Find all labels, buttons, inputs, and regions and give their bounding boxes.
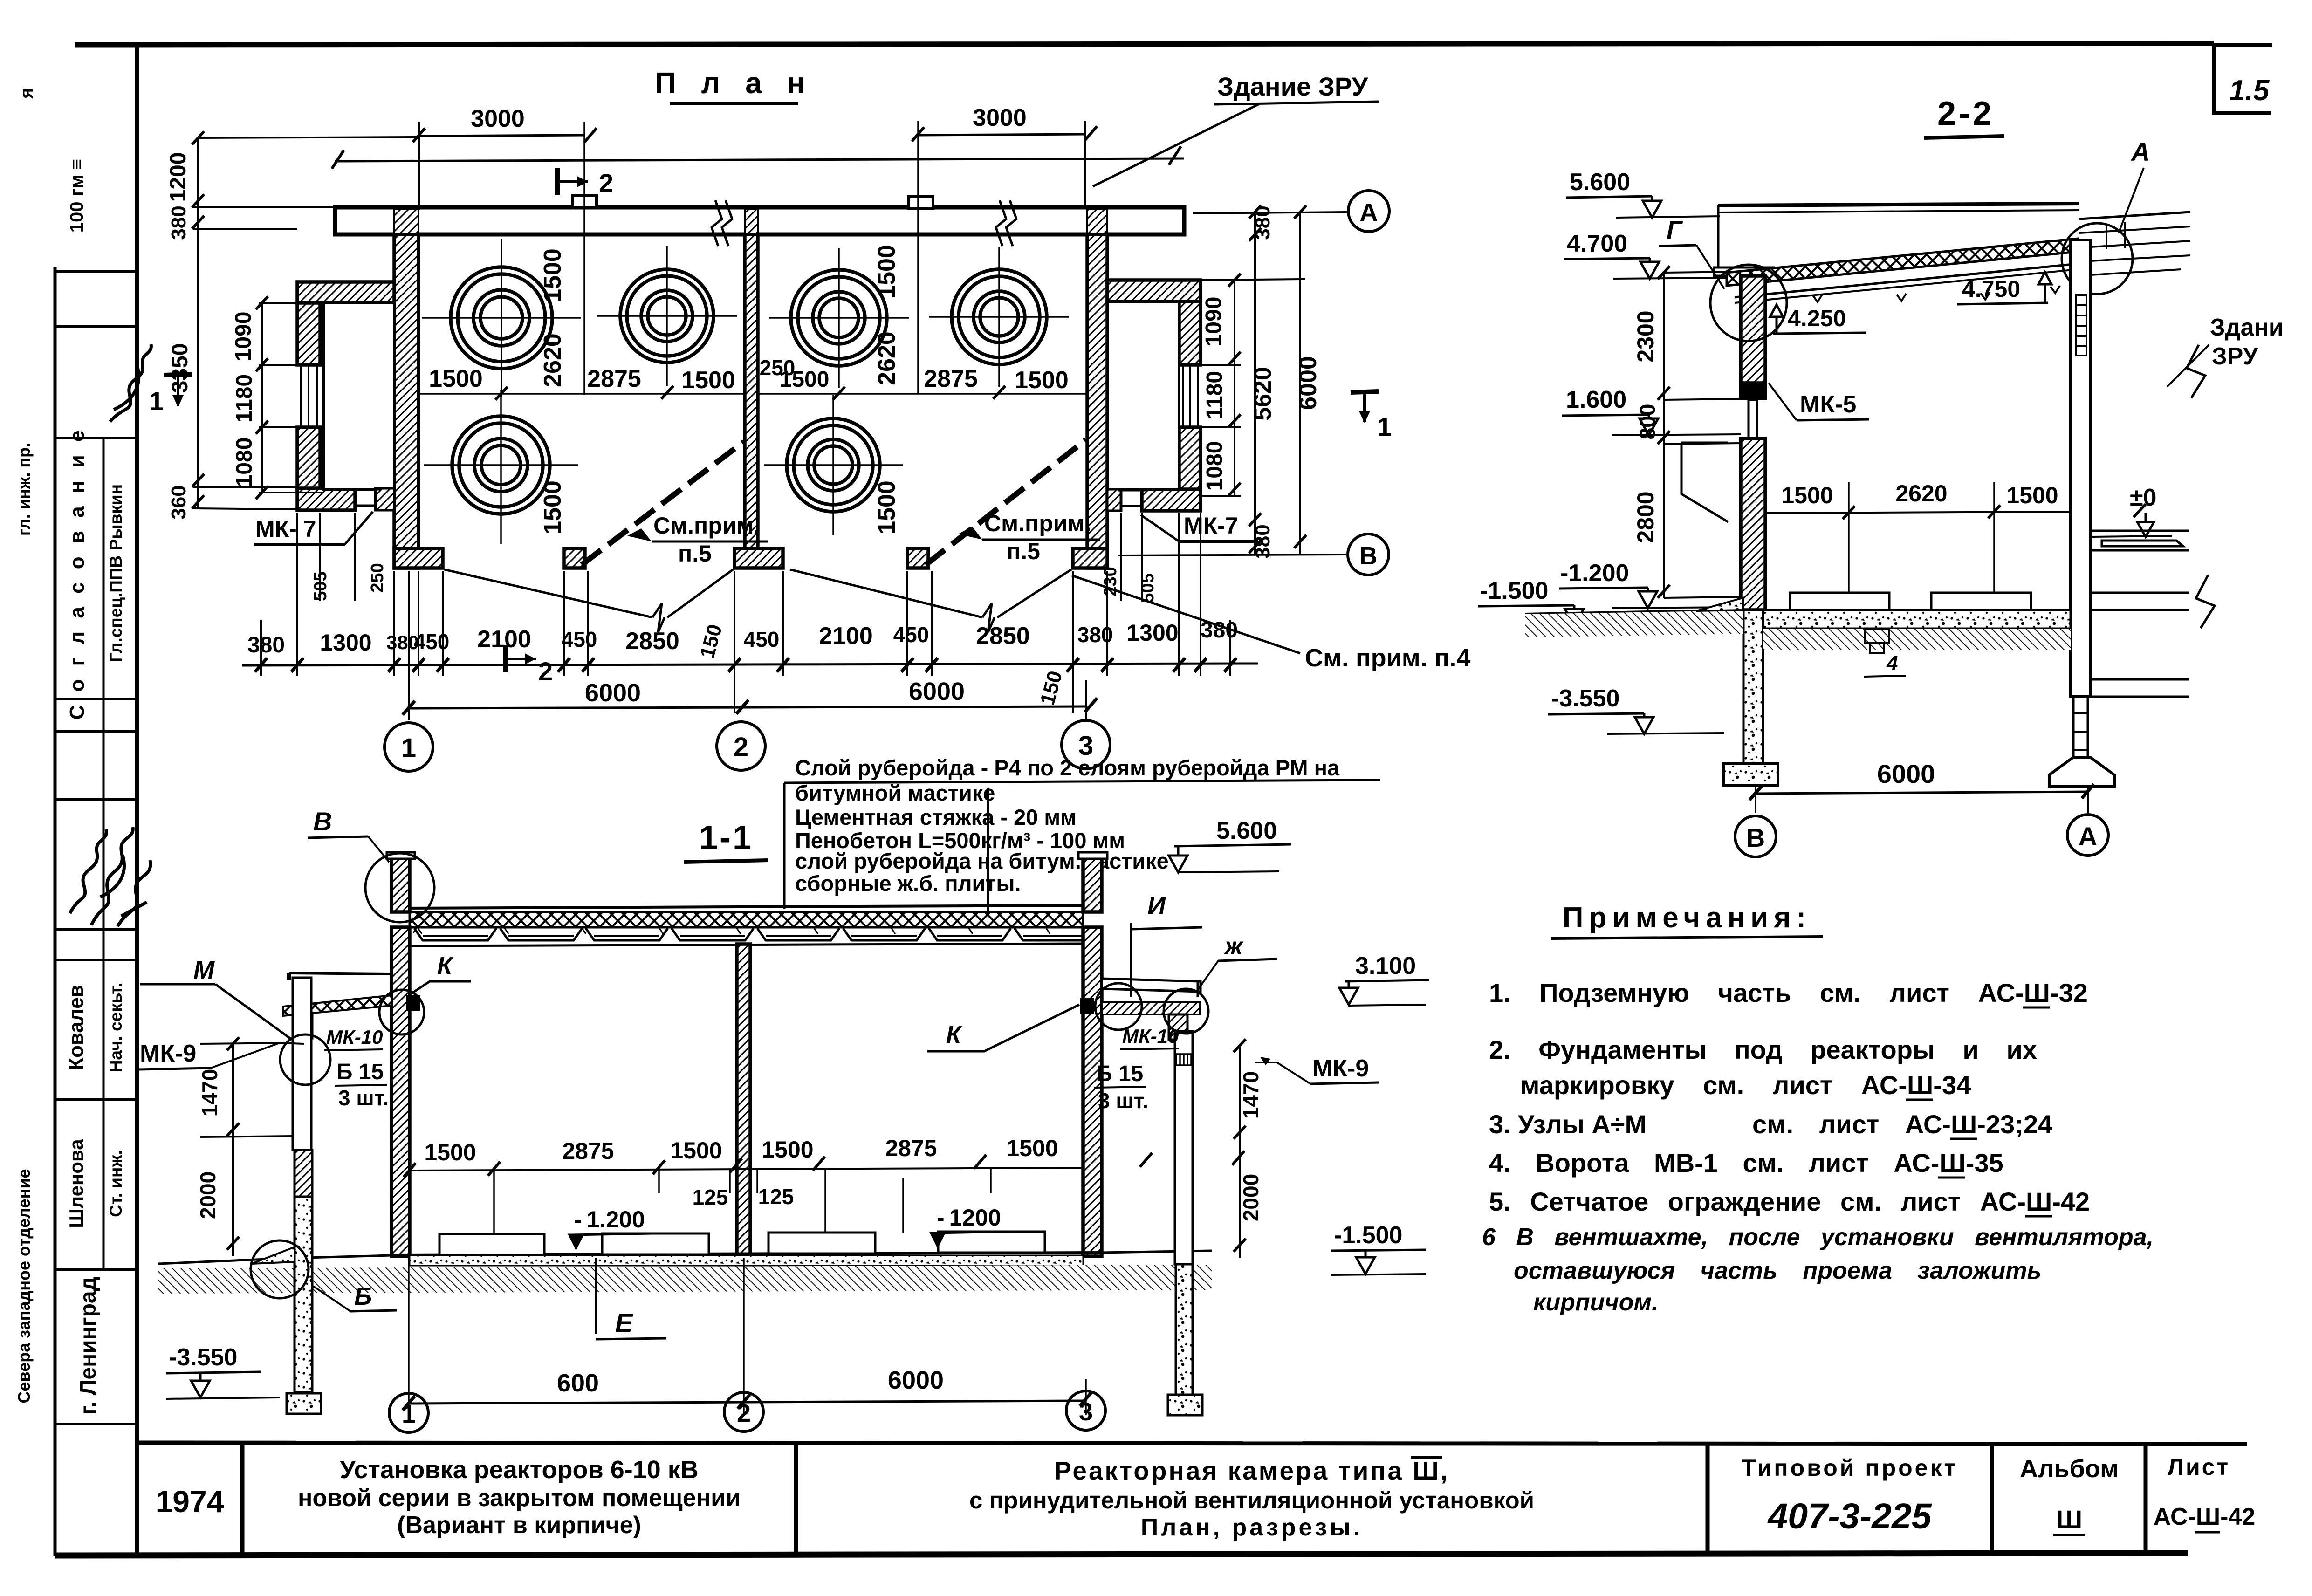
svg-text:407-3-225: 407-3-225 [1767,1496,1932,1536]
svg-text:450: 450 [893,623,929,647]
svg-text:В: В [1359,542,1378,570]
svg-text:1500: 1500 [1006,1135,1058,1161]
svg-text:800: 800 [1635,404,1660,440]
svg-text:1080: 1080 [1202,441,1227,491]
svg-text:Типовой проект: Типовой проект [1742,1455,1958,1481]
svg-text:(Вариант в кирпиче): (Вариант в кирпиче) [397,1512,641,1539]
spec leader to roof [987,788,989,925]
svg-text:М: М [193,956,215,984]
ground wedge left [252,1247,295,1264]
right outer column [1175,1031,1193,1264]
2-2 right roof lines (detail A) [2079,212,2190,275]
right shaft interior [1107,301,1179,489]
1-1 right parapet [1083,858,1102,912]
2-2 flat roof second line [1718,210,2079,212]
svg-text:1500: 1500 [429,365,483,392]
reactor chamber2 top-left [769,248,909,388]
svg-text:3. Узлы А÷М: 3. Узлы А÷М [1489,1110,1647,1139]
svg-text:6 В вентшахте, после установки: 6 В вентшахте, после установки вентилято… [1482,1224,2154,1251]
svg-text:2850: 2850 [625,628,679,655]
1-1 floor concrete band [410,1255,1083,1266]
svg-text:2000: 2000 [1239,1174,1263,1221]
2-2 ground line left [1525,610,1743,614]
2-2 right wall [2071,240,2091,697]
svg-text:6000: 6000 [909,678,965,706]
right canopy pier [1169,1014,1187,1040]
frame top border [75,43,2214,45]
svg-text:маркировку см. лист АС-Ш-34: маркировку см. лист АС-Ш-34 [1520,1070,1971,1100]
left vertical dim chain outer [193,137,419,509]
right column footing [1168,1395,1202,1415]
svg-text:-1.500: -1.500 [1480,577,1548,604]
2-2 parapet cap [1714,267,1774,276]
svg-text:2000: 2000 [196,1171,220,1219]
top overall dimension line [335,158,1184,161]
svg-text:п.5: п.5 [1007,538,1040,564]
dim 3000 right [918,134,1085,135]
svg-text:-3.550: -3.550 [169,1344,237,1371]
right outer column underground [1176,1264,1193,1395]
chamber left wall bottom corner [394,548,443,568]
right porch dim chain [1239,1046,1241,1258]
svg-text:Цементная стяжка - 20 мм: Цементная стяжка - 20 мм [795,805,1077,829]
svg-text:См.прим.: См.прим. [984,510,1091,536]
svg-text:Ст. инж.: Ст. инж. [106,1150,125,1217]
svg-text:3000: 3000 [471,105,525,132]
svg-text:АС-Ш-42: АС-Ш-42 [2154,1503,2256,1530]
svg-text:5. Сетчатое ограждение см. лис: 5. Сетчатое ограждение см. лист АС-Ш-42 [1489,1187,2090,1216]
svg-text:4.700: 4.700 [1567,230,1627,257]
svg-text:1500: 1500 [873,245,900,299]
svg-text:См. прим. п.4: См. прим. п.4 [1305,644,1470,672]
1-1 roof slab band [410,912,1083,927]
plan axis circles 1 2 3 [384,720,1110,771]
wall hatch where chamber wall meets band [394,209,418,234]
svg-text:с принудительной вентиляционно: с принудительной вентиляционной установк… [969,1487,1534,1514]
svg-text:Е: Е [615,1308,633,1337]
gate swing chamber1 [444,569,733,632]
svg-text:1-1: 1-1 [699,819,753,856]
small pier chamber1 [564,548,585,568]
svg-text:5.600: 5.600 [1570,169,1630,196]
svg-text:МК-10: МК-10 [326,1026,383,1048]
svg-text:1300: 1300 [320,630,371,656]
svg-text:1470: 1470 [1239,1071,1263,1119]
svg-text:МК-9: МК-9 [1312,1055,1369,1082]
right shaft MK-7 insert [1118,489,1146,512]
svg-text:100 гм ≡: 100 гм ≡ [67,159,87,233]
2-2 bottom dim 6000 [1756,792,2088,794]
2-2 window bracket [1681,443,1728,522]
svg-text:380: 380 [1251,524,1274,558]
2-2 floor slab [1763,610,2071,629]
svg-text:2620: 2620 [1895,480,1947,507]
svg-text:1500: 1500 [1781,482,1833,508]
svg-text:1500: 1500 [424,1139,476,1165]
plan right axis A line [1193,212,1348,213]
svg-text:380: 380 [1251,205,1274,240]
svg-text:-1.500: -1.500 [1334,1222,1402,1249]
svg-text:5.600: 5.600 [1216,817,1277,844]
svg-text:К: К [946,1021,962,1048]
svg-text:600: 600 [557,1369,599,1397]
svg-text:слой руберойда на битум.мастик: слой руберойда на битум.мастике [795,849,1169,873]
sidebar outer line [54,267,57,1556]
svg-text:А: А [2130,137,2150,166]
right detail circles [1095,983,1142,1030]
frame bottom border [55,1553,2188,1555]
right wall [1087,234,1107,568]
axis dim 6000 line [409,706,1086,708]
svg-text:-3.550: -3.550 [1551,685,1619,712]
1-1 floor line [391,1253,1102,1255]
svg-text:См.прим.: См.прим. [653,513,760,539]
left vertical dim chain shaft [259,303,323,493]
1-1 ceiling panels [410,928,1094,946]
svg-text:1: 1 [149,386,164,416]
1-1 bottom axis dim [409,1401,1086,1404]
svg-text:1500: 1500 [539,480,566,534]
svg-text:3.100: 3.100 [1355,952,1416,980]
right vent shaft top band [1107,280,1201,301]
2-2 interior dim 1500 2620 1500 [1765,512,2071,513]
svg-text:В: В [313,807,332,836]
svg-text:1. Подземную часть см. лист АС: 1. Подземную часть см. лист АС-Ш-32 [1489,978,2088,1007]
left shaft MK-7 insert [352,489,380,512]
interior horizontal guide line row1/row2 [418,393,745,395]
svg-text:С о г л а с о в а н и е: С о г л а с о в а н и е [66,427,89,720]
page number box top right [2214,44,2272,113]
right vertical dim chain 6000 [1299,212,1301,555]
1-1 floor pedestals [439,1234,544,1255]
svg-text:1470: 1470 [198,1069,222,1117]
svg-text:Б 15: Б 15 [336,1060,384,1084]
2-2 detail circle Г [1710,265,1787,341]
2-2 MK-5 black band [1739,383,1767,400]
svg-text:125: 125 [693,1185,728,1209]
right vent shaft bottom band left part [1107,489,1121,511]
left outer column lower hatched [295,1150,312,1197]
svg-text:3 шт.: 3 шт. [1098,1089,1148,1113]
right canopy slab [1102,979,1201,992]
2-2 axis circles B A [1735,816,1776,857]
left detail circle at wall [379,990,424,1034]
svg-text:МК-5: МК-5 [1800,391,1856,418]
svg-text:-1.200: -1.200 [1560,560,1629,587]
svg-text:К: К [437,952,453,980]
svg-text:5620: 5620 [1249,367,1276,421]
dim 3000 left [419,135,584,136]
1-1 E label [595,1258,597,1334]
2-2 vertical dim chain [1663,273,1665,598]
plan right axis B line [1118,555,1347,555]
svg-text:1080: 1080 [232,438,257,487]
svg-text:Здани: Здани [2210,314,2284,341]
svg-text:- 1200: - 1200 [937,1205,1001,1231]
left vent shaft bottom band right part [375,488,394,510]
2-2 flat roof top line [1718,204,2079,205]
2-2 floor pedestals [1790,593,1889,610]
svg-text:450: 450 [562,627,597,651]
svg-text:1090: 1090 [1201,297,1226,347]
sidebar divider [55,270,137,273]
2-2 roof slab lower lines [1735,264,2078,297]
left vent shaft left wall lower [297,427,320,493]
svg-text:МК-10: МК-10 [1122,1025,1179,1047]
svg-text:Севера западное отделение: Севера западное отделение [14,1169,34,1404]
bottom dimension line [242,664,1258,665]
underline of VI [1411,1456,1442,1459]
break mark on wall band 2 [996,200,1016,246]
svg-text:2: 2 [599,168,613,198]
svg-text:4.750: 4.750 [1962,276,2020,302]
svg-text:В: В [1746,823,1765,852]
2-2 left column underground [1743,610,1763,764]
right vertical dim chain shaft [1201,279,1305,496]
svg-text:п.5: п.5 [678,541,712,567]
svg-text:380: 380 [1077,623,1113,647]
left porch detail circle bottom [251,1240,309,1298]
svg-text:2: 2 [538,657,553,686]
middle wall [745,234,758,548]
svg-text:2-2: 2-2 [1937,95,1994,132]
svg-text:1180: 1180 [232,374,257,423]
2-2 break marks right [2187,345,2215,628]
svg-text:1: 1 [401,733,416,763]
left canopy pier [295,1015,312,1038]
reactor chamber2 bottom-left [764,395,903,535]
svg-text:2875: 2875 [562,1138,614,1164]
svg-text:Ш: Ш [2056,1505,2082,1534]
svg-text:1500: 1500 [873,480,900,534]
svg-text:А: А [1360,199,1378,226]
2-2 detail circle A [2062,223,2133,294]
2-2 panel joint notches [1813,286,2060,302]
svg-text:2: 2 [737,1399,751,1427]
Ш underlines in notes [1906,1007,2052,1216]
svg-text:гл. инж. пр.: гл. инж. пр. [14,443,34,536]
left porch dim chain [232,1044,234,1256]
svg-text:1974: 1974 [156,1484,224,1519]
left canopy slab sloped [283,995,391,1016]
2-2 right column underground [2073,697,2088,757]
svg-text:2. Фундаменты под реакторы и и: 2. Фундаменты под реакторы и их [1489,1035,2037,1064]
reactor chamber1 bottom-left [424,390,578,544]
svg-text:3350: 3350 [168,343,192,393]
2-2 parapet face [1717,205,1720,270]
left vent shaft bottom band [297,488,355,510]
1-1 roof top line [397,905,1096,908]
svg-text:1180: 1180 [1202,371,1227,419]
chamber left wall [394,234,418,568]
2-2 left column lower [1741,438,1765,610]
svg-text:Альбом: Альбом [2020,1455,2119,1483]
2-2 left column upper [1741,276,1765,383]
svg-text:380: 380 [1201,618,1238,643]
1-1 axis circles [389,1393,428,1432]
svg-text:2875: 2875 [587,365,641,392]
svg-text:МК-9: МК-9 [140,1040,196,1067]
svg-text:1500: 1500 [539,248,566,302]
svg-text:2620: 2620 [873,331,900,385]
section marker 1 left [164,374,192,407]
2-2 right footing flared [2049,757,2114,786]
svg-text:МК-7: МК-7 [1184,513,1238,539]
svg-text:3: 3 [1079,1398,1093,1426]
svg-text:1.600: 1.600 [1566,386,1626,413]
svg-text:П л а н: П л а н [655,66,813,100]
svg-text:МК- 7: МК- 7 [255,516,316,542]
svg-text:сборные ж.б. плиты.: сборные ж.б. плиты. [795,871,1021,896]
signature squiggle 1 [70,829,107,913]
dim ticks chamber1 row [495,386,673,400]
svg-text:360: 360 [167,485,190,519]
svg-text:- 1.200: - 1.200 [574,1206,645,1233]
bottom dim extension lines [261,513,1230,713]
svg-text:2100: 2100 [477,626,531,653]
signature squiggle 2 [91,827,133,925]
fence diagonal chamber1 [582,442,744,565]
1-1 connection squares [406,995,420,1011]
left vent shaft top band [297,282,394,303]
section marker 2 top [557,168,588,195]
svg-text:1090: 1090 [231,312,256,362]
signature above Согласование [110,344,151,422]
svg-text:Нач. секьт.: Нач. секьт. [106,983,125,1073]
left outer column underground concrete [295,1197,312,1392]
svg-text:Б 15: Б 15 [1096,1062,1143,1086]
svg-text:1500: 1500 [2006,482,2058,508]
svg-text:1200: 1200 [166,152,191,202]
1-1 interior dim line [410,1168,1083,1171]
title block verticals [240,1443,245,1555]
svg-text:2875: 2875 [885,1135,937,1161]
frame left border [135,44,139,1556]
svg-text:380: 380 [247,633,285,658]
svg-text:2: 2 [734,732,748,762]
2-2 right wall vent channel [2076,295,2086,356]
svg-text:Лист: Лист [2168,1454,2230,1480]
leader Здание ЗРУ [1093,104,1258,186]
2-2 left footing [1723,764,1778,785]
svg-text:2300: 2300 [1633,310,1659,362]
title block top line [137,1443,2247,1444]
left shaft interior [323,303,394,489]
break mark on wall band 1 [712,200,732,246]
svg-text:Здание ЗРУ: Здание ЗРУ [1217,72,1368,101]
svg-text:1: 1 [1377,412,1392,441]
svg-text:450: 450 [414,630,450,654]
svg-text:2850: 2850 [976,623,1030,650]
svg-text:4. Ворота МВ-1 см. лист АС-Ш-3: 4. Ворота МВ-1 см. лист АС-Ш-35 [1489,1148,2003,1178]
svg-text:Слой руберойда - Р4 по 2 слоям: Слой руберойда - Р4 по 2 слоям руберойда… [795,755,1340,780]
right vertical dim chain 5620 [1254,212,1256,555]
svg-text:6000: 6000 [585,679,641,707]
2-2 small block under floor [1865,629,1889,653]
signature squiggle 3 [117,860,151,926]
svg-text:2800: 2800 [1633,491,1659,543]
right vent shaft bottom band [1142,489,1201,511]
svg-text:см. лист АС-Ш-23;24: см. лист АС-Ш-23;24 [1752,1110,2052,1139]
1-1 left wall [391,927,410,1256]
right canopy band hatched [1102,1002,1200,1014]
1-1 right wall [1083,927,1102,1256]
right vent shaft right wall lower [1179,427,1201,496]
svg-text:2100: 2100 [819,623,873,650]
svg-text:125: 125 [758,1185,794,1209]
svg-text:г. Ленинград: г. Ленинград [76,1277,101,1415]
1-1 outside ground lines [158,1255,391,1264]
left column footing [287,1393,321,1414]
svg-text:6000: 6000 [888,1366,944,1394]
svg-text:3 шт.: 3 шт. [338,1086,389,1110]
svg-text:4.250: 4.250 [1788,305,1846,331]
left vent shaft louver opening [301,365,317,427]
1-1 left parapet [391,858,410,912]
svg-text:Б: Б [354,1282,372,1310]
svg-text:1.5: 1.5 [2229,75,2270,107]
svg-text:План, разрезы.: План, разрезы. [1141,1514,1363,1541]
wall band bump 1 [572,196,597,207]
right wall bottom corner [1073,548,1107,568]
reactor circles: chamber1 top-left [422,239,581,397]
small pier chamber2 [907,548,928,568]
svg-text:6000: 6000 [1877,759,1935,788]
reactor chamber2 top-right [929,247,1069,387]
2-2 earth under floor [1763,629,2071,650]
svg-text:новой серии в закрытом помещен: новой серии в закрытом помещении [298,1485,741,1512]
svg-text:оставшуюся часть проема заложи: оставшуюся часть проема заложить [1514,1257,2041,1284]
svg-text:380: 380 [167,205,190,240]
ZRU building wall band [335,196,1184,234]
sidebar middle vertical [103,438,105,1269]
svg-text:2620: 2620 [539,333,566,387]
middle wall bottom pier [734,548,783,568]
svg-text:ЗРУ: ЗРУ [2212,343,2258,370]
svg-text:1500: 1500 [762,1137,813,1163]
fence diagonal chamber2 [926,440,1086,565]
2-2 ZRU floor slabs [2091,531,2189,697]
svg-text:ж: ж [1223,933,1244,960]
section marker 2 bottom [506,645,536,672]
svg-text:А: А [2079,822,2097,851]
svg-text:Ковалев: Ковалев [65,985,88,1070]
svg-text:И: И [1147,892,1166,920]
1-1 middle wall [737,944,750,1256]
svg-text:Шленова: Шленова [65,1139,87,1228]
section marker 1 right [1351,391,1379,423]
right vent shaft right wall upper [1179,301,1201,365]
1-1 earth hatch band [158,1265,1212,1294]
svg-text:1500: 1500 [1015,367,1069,394]
reactor chamber1 top-right [597,246,737,386]
right vent shaft louver opening [1183,365,1198,427]
svg-text:1500: 1500 [670,1137,722,1164]
label См. прим. п.4 [1072,575,1300,653]
svg-text:Примечания:: Примечания: [1563,902,1811,934]
left vent shaft left wall upper [297,303,320,365]
svg-text:450: 450 [744,627,780,651]
svg-text:Реакторная камера типа Ш,: Реакторная камера типа Ш, [1054,1456,1449,1485]
gate swing chamber2 [790,569,1071,632]
svg-text:кирпичом.: кирпичом. [1533,1289,1658,1316]
svg-text:±0: ±0 [2130,484,2156,511]
svg-text:3000: 3000 [973,104,1027,131]
svg-text:2875: 2875 [924,365,978,392]
2-2 left column window part [1749,400,1757,438]
svg-text:6000: 6000 [1295,356,1322,410]
svg-text:я: я [16,88,37,99]
